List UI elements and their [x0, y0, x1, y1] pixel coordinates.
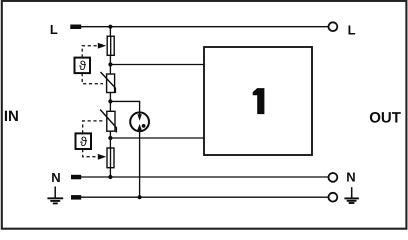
wire mid node to GDT	[110, 101, 139, 112]
dashed link T1 to RV1	[82, 73, 103, 84]
junction on PE line	[138, 195, 142, 199]
svg-text:OUT: OUT	[369, 109, 401, 126]
terminal PE input	[71, 195, 81, 200]
terminal N output	[329, 173, 338, 182]
dashed link T2 to F2	[83, 149, 107, 160]
svg-text:ϑ: ϑ	[79, 58, 87, 73]
svg-text:ϑ: ϑ	[80, 134, 88, 149]
wire PE line	[81, 196, 328, 198]
ground symbol right	[344, 187, 359, 203]
wire A (to module box)	[110, 64, 204, 66]
wire C (to module box)	[110, 137, 204, 139]
wire GDT ground branch	[139, 131, 141, 198]
varistor RV2	[100, 110, 116, 133]
wire N line	[81, 176, 328, 178]
junction node C	[108, 136, 112, 140]
gas discharge tube GDT	[130, 112, 149, 131]
svg-text:N: N	[346, 170, 355, 185]
dashed link T2 to RV2	[83, 121, 103, 133]
varistor RV1	[101, 72, 116, 93]
thermal monitor T1 box	[75, 58, 91, 74]
ground symbol left	[47, 187, 63, 204]
junction mid node	[108, 99, 112, 103]
dashed link T1 to F1	[82, 43, 106, 58]
svg-text:N: N	[51, 170, 60, 185]
terminal PE output	[329, 193, 338, 202]
junction on N line	[108, 175, 112, 179]
svg-text:L: L	[50, 22, 58, 37]
svg-text:IN: IN	[4, 108, 19, 125]
terminal L input	[70, 25, 81, 30]
svg-text:L: L	[348, 23, 356, 38]
terminal L output	[329, 22, 338, 31]
fuse F1 (thermal disconnector)	[107, 36, 114, 55]
terminal N input	[71, 175, 81, 180]
junction node A	[108, 62, 112, 66]
thermal monitor T2 box	[76, 133, 92, 149]
wire L line	[81, 26, 328, 28]
junction on L line	[108, 25, 112, 29]
fuse F2 (thermal disconnector)	[107, 148, 114, 168]
wire main chain vertical	[109, 27, 111, 177]
protection module box 1	[204, 47, 312, 155]
